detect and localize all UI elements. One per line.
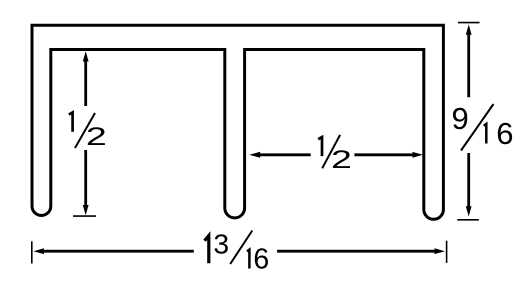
dim B label: numerator 1	[318, 137, 322, 156]
dim D label: denominator 1 of 16	[247, 250, 249, 269]
svg-text:9: 9	[452, 101, 469, 136]
dim B: left arrowhead (points left)	[249, 152, 260, 158]
dim A: lower arrowhead (points down)	[83, 205, 89, 215]
dim D: right tick	[446, 241, 448, 263]
dim C: upper arrowhead (points up)	[466, 25, 472, 35]
dim B: right arrowhead (points right)	[413, 152, 423, 158]
svg-text:3: 3	[214, 228, 230, 259]
dim D: left arrowhead (points left)	[34, 248, 44, 254]
dim D: right arrowhead (points right)	[435, 248, 445, 254]
dim C label: fraction slash	[461, 104, 494, 151]
dim C: upper segment	[467, 30, 470, 97]
dim A: upper arrowhead (points up)	[83, 51, 89, 61]
svg-text:6: 6	[253, 244, 269, 276]
dim C: bottom tick	[457, 219, 479, 221]
profile outline (comb-shaped channel cross-section)	[32, 25, 443, 219]
dim D label: whole number 1	[205, 236, 209, 264]
dim D: bottom 1-3/16 horizontal dimension, left tick	[31, 241, 33, 263]
dim D: right segment	[277, 250, 438, 253]
dim A: bottom tick	[73, 215, 96, 217]
dim A label: fraction slash	[75, 113, 95, 148]
svg-text:2: 2	[331, 146, 352, 174]
svg-text:2: 2	[86, 123, 107, 151]
dim C label: denominator 1 of 16	[484, 124, 487, 144]
dim C: lower arrowhead (points down)	[466, 206, 472, 216]
dim A: left 1/2 vertical dimension line upper segment	[84, 57, 87, 106]
dim B label: fraction slash	[322, 135, 340, 168]
dim A: lower segment	[84, 150, 87, 209]
dim A label: numerator 1	[69, 112, 73, 131]
dim C: right 9/16 vertical dimension, top tick	[458, 22, 480, 24]
dim B: middle 1/2 horizontal dimension, left segment	[256, 153, 311, 156]
dim D label: fraction slash	[230, 231, 252, 265]
dim C: lower segment	[467, 153, 470, 210]
dim B: right segment	[354, 153, 417, 156]
dim D: left segment	[40, 250, 194, 253]
svg-text:6: 6	[496, 116, 513, 151]
